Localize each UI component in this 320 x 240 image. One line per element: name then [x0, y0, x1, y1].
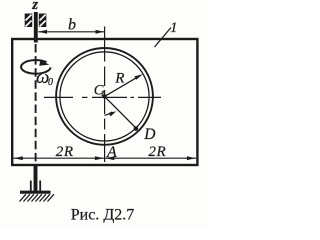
line C to D [105, 96, 137, 128]
vertical center line [104, 27, 106, 163]
center point C1 [102, 94, 106, 98]
bottom bearing left wall [30, 181, 32, 192]
svg-text:D: D [143, 126, 155, 143]
axis z dashed line [35, 44, 37, 163]
svg-text:Рис. Д2.7: Рис. Д2.7 [71, 207, 134, 224]
arrow pair at center line [95, 156, 104, 160]
hole outer circle [56, 48, 153, 145]
axis z top shaft [34, 12, 38, 43]
axis z bottom shaft [34, 166, 38, 192]
svg-text:R: R [114, 71, 124, 87]
ground line [20, 191, 51, 194]
svg-text:2R: 2R [148, 144, 166, 160]
dimension b left arrow [38, 30, 47, 34]
rotation arrowhead [39, 60, 49, 65]
svg-text:2R: 2R [56, 144, 74, 160]
svg-text:z: z [31, 0, 38, 13]
dimension b right arrow [96, 30, 105, 34]
angle arc with arrow [105, 112, 113, 116]
radius R arrow [134, 74, 143, 80]
top bearing left block [25, 14, 33, 28]
point D [134, 126, 139, 131]
leader line for label 1 [155, 28, 172, 48]
hole inner circle [60, 52, 149, 141]
plate 1 outline [12, 39, 197, 165]
horizontal center line [44, 96, 161, 98]
svg-text:b: b [68, 17, 76, 34]
bottom dimension line [14, 157, 197, 159]
svg-text:A: A [106, 144, 117, 161]
arrow at left edge [14, 156, 23, 160]
rotation arrow omega0 (ellipse) [21, 60, 51, 74]
svg-text:1: 1 [170, 20, 178, 36]
bottom bearing right wall [39, 181, 41, 192]
top bearing right block [39, 14, 47, 28]
arrow at right edge [187, 156, 196, 160]
svg-text:0: 0 [48, 77, 53, 88]
ground hatching [20, 194, 55, 201]
radius R line [105, 75, 141, 96]
dimension b line [38, 31, 104, 33]
